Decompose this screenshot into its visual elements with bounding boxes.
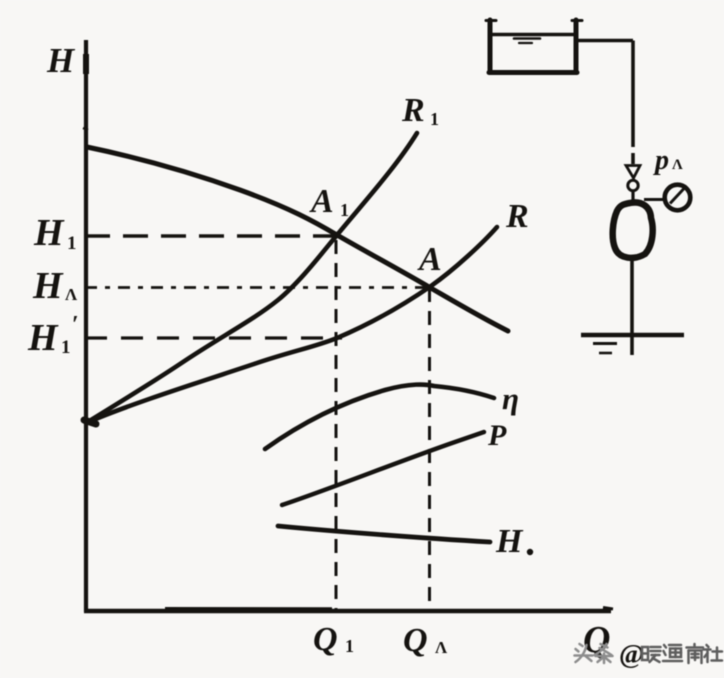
glyph 条 bbox=[595, 644, 613, 663]
system curve R1 bbox=[86, 133, 417, 423]
dashed vertical QA bbox=[428, 288, 431, 609]
static head curve H. bbox=[278, 526, 490, 542]
tank (upper reservoir) bbox=[486, 20, 582, 73]
glyph 通 bbox=[663, 645, 682, 661]
dashed line H1 bbox=[85, 234, 336, 238]
svg-text:A: A bbox=[417, 241, 442, 278]
svg-text:1: 1 bbox=[61, 337, 71, 358]
svg-text:1: 1 bbox=[430, 109, 439, 129]
power curve P bbox=[282, 432, 484, 505]
svg-text:P: P bbox=[487, 419, 507, 452]
efficiency curve eta bbox=[265, 385, 494, 449]
suction water surface bbox=[581, 335, 684, 353]
svg-text:H: H bbox=[32, 265, 64, 307]
svg-text:R: R bbox=[401, 92, 425, 129]
ink blob at R-curves origin bbox=[84, 420, 96, 424]
pressure gauge pA bbox=[644, 198, 665, 201]
valve bbox=[626, 166, 640, 179]
dashed line HA bbox=[85, 286, 429, 289]
dashed line H1' bbox=[85, 336, 342, 339]
discharge pipe bbox=[578, 41, 633, 165]
svg-text:@: @ bbox=[619, 639, 644, 669]
svg-text:′: ′ bbox=[72, 312, 79, 338]
svg-text:H: H bbox=[46, 41, 76, 80]
svg-text:Λ: Λ bbox=[435, 638, 448, 657]
svg-text:1: 1 bbox=[67, 233, 77, 254]
svg-text:Λ: Λ bbox=[672, 157, 683, 173]
svg-text:H: H bbox=[495, 523, 524, 560]
svg-text:R: R bbox=[505, 198, 529, 235]
glyph 社 bbox=[704, 645, 723, 662]
svg-text:p: p bbox=[653, 145, 669, 176]
svg-text:1: 1 bbox=[340, 200, 349, 220]
glyph 南 bbox=[687, 644, 704, 663]
glyph 暖 bbox=[642, 647, 661, 662]
x-axis Q bbox=[84, 609, 611, 613]
y-axis H bbox=[84, 40, 88, 612]
dashed vertical Q1 bbox=[335, 240, 338, 609]
svg-text:H: H bbox=[33, 212, 65, 254]
suction pipe bbox=[630, 258, 634, 355]
pump body bbox=[613, 202, 653, 257]
svg-text:Q: Q bbox=[313, 621, 338, 658]
svg-text:A: A bbox=[309, 183, 334, 220]
svg-text:Q: Q bbox=[403, 622, 428, 659]
svg-text:1: 1 bbox=[345, 636, 354, 656]
pump H-Q curve bbox=[87, 147, 508, 331]
svg-text:Λ: Λ bbox=[65, 285, 78, 304]
svg-text:η: η bbox=[502, 381, 519, 416]
system curve R bbox=[86, 227, 497, 423]
glyph 头 bbox=[575, 644, 593, 662]
tank water level bbox=[492, 33, 574, 36]
svg-text:H: H bbox=[27, 317, 59, 359]
watermark 头条@暖通南社 bbox=[575, 644, 613, 663]
